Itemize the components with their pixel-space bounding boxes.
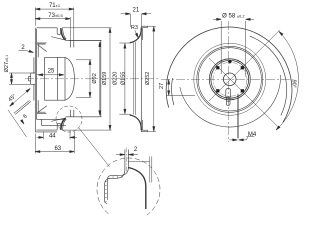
detail curl inner xyxy=(107,176,111,200)
stator circle a xyxy=(197,46,263,112)
svg-text:90°: 90° xyxy=(291,80,297,88)
svg-text:2: 2 xyxy=(134,147,138,153)
detail circle A xyxy=(56,106,82,132)
front horizontal centerline xyxy=(161,78,294,80)
detail housing verticals xyxy=(150,157,152,183)
motor dome xyxy=(65,57,74,100)
detail bend outer xyxy=(111,170,125,179)
bracket foot ledge xyxy=(37,119,66,125)
front diagonal up-right xyxy=(209,30,280,101)
dim 6 line xyxy=(8,110,27,137)
svg-text:73±0,5: 73±0,5 xyxy=(48,13,63,19)
top slot xyxy=(57,28,60,35)
svg-text:27: 27 xyxy=(159,83,165,89)
bracket foot bottom xyxy=(35,131,57,133)
inlet bellmouth bottom xyxy=(130,115,142,130)
bracket bar 45° xyxy=(14,100,31,114)
mounting squares xyxy=(216,60,244,93)
front vertical centerline xyxy=(228,21,230,142)
dim Ø220 xyxy=(62,28,112,130)
shaft boss xyxy=(31,73,36,84)
dim 25 xyxy=(37,74,64,76)
detail backplate heavy xyxy=(128,168,145,210)
shroud top line xyxy=(66,39,101,41)
terminal stud upper xyxy=(226,88,231,97)
detail dim 2 xyxy=(116,154,138,156)
dim 63 xyxy=(35,132,74,154)
terminal stud lower xyxy=(226,101,230,105)
svg-text:45°: 45° xyxy=(7,93,17,103)
impeller front rim vertical xyxy=(100,40,102,116)
detail sheet centerline xyxy=(126,148,128,173)
dim 21 xyxy=(121,14,152,27)
shroud cone diagonal bottom xyxy=(51,118,66,122)
dim Ø252 xyxy=(148,26,156,131)
dim 71±1 xyxy=(35,7,74,40)
svg-text:2: 2 xyxy=(21,45,25,51)
svg-text:Ø159: Ø159 xyxy=(102,72,108,85)
terminal stud mid xyxy=(226,97,231,101)
detail curl dots xyxy=(105,176,122,201)
dim 45° line xyxy=(10,89,31,107)
backplate vertical b xyxy=(73,40,75,116)
svg-text:25: 25 xyxy=(48,69,55,75)
shaft end xyxy=(29,76,31,81)
dim Ø92 xyxy=(76,60,92,98)
svg-text:63: 63 xyxy=(54,146,61,152)
center hole xyxy=(223,73,236,86)
svg-text:44: 44 xyxy=(49,134,56,140)
backplate arc xyxy=(180,75,281,127)
dim Ø58 xyxy=(213,19,254,76)
housing bottom edge xyxy=(37,129,58,131)
stator circle b xyxy=(198,48,261,111)
centerline axis xyxy=(25,78,158,80)
svg-text:Ø92: Ø92 xyxy=(92,73,98,83)
housing inner arc right xyxy=(250,36,287,115)
inlet mouth bottom tick xyxy=(119,113,130,115)
inlet ring cylinder silhouette xyxy=(134,42,136,115)
hub cap circle a xyxy=(209,59,250,100)
inlet bellmouth top xyxy=(130,28,142,43)
hub cap circle b xyxy=(211,60,249,98)
dim 44 xyxy=(37,131,78,140)
inlet ring outer silhouette xyxy=(141,26,142,132)
bottom slot xyxy=(57,123,60,130)
top diamond xyxy=(228,60,232,64)
svg-text:Ø252: Ø252 xyxy=(145,72,151,85)
svg-text:R3: R3 xyxy=(131,25,138,31)
R3 leader xyxy=(135,30,138,36)
detail curl outer xyxy=(105,178,111,203)
svg-text:6: 6 xyxy=(22,113,28,120)
detail circle B xyxy=(97,158,160,221)
housing top edge xyxy=(37,27,58,29)
dim 2 leader xyxy=(19,50,31,52)
dim 73±0.5 xyxy=(35,17,70,40)
dim 90° arc xyxy=(276,32,298,131)
dim Ø27 xyxy=(9,73,31,84)
detail sheet verticals xyxy=(125,150,128,170)
dim 27 xyxy=(167,79,195,95)
dim Ø159 xyxy=(69,40,102,116)
bottom step curve heavy xyxy=(61,118,66,130)
rotor circle xyxy=(194,43,266,115)
detail leader xyxy=(79,128,110,167)
svg-text:Ø155: Ø155 xyxy=(120,72,126,85)
top step curve heavy xyxy=(61,28,66,40)
svg-text:Ø27±0,1: Ø27±0,1 xyxy=(4,55,10,73)
inlet ring flange bottom xyxy=(141,130,147,132)
svg-text:Ø220: Ø220 xyxy=(113,72,119,85)
flange inner vertical xyxy=(36,29,38,120)
svg-text:71±1: 71±1 xyxy=(49,3,61,9)
cone top lines xyxy=(37,43,47,58)
inlet ring flange top xyxy=(141,26,147,27)
svg-text:M4: M4 xyxy=(248,132,257,138)
cone bottom lines xyxy=(37,100,47,113)
backplate vertical a xyxy=(69,40,71,116)
motor body xyxy=(45,57,65,100)
detail top tick xyxy=(128,161,149,163)
housing inner arc left xyxy=(172,78,174,105)
motor seam xyxy=(56,57,58,100)
dim M4 xyxy=(230,137,255,140)
detail bend inner xyxy=(111,168,128,176)
bolt circle xyxy=(213,62,247,96)
flange front face xyxy=(33,58,35,101)
shroud bottom line xyxy=(66,116,101,118)
svg-text:Ø 58 ±0,2: Ø 58 ±0,2 xyxy=(222,13,245,19)
housing outer arc xyxy=(166,27,292,122)
M4 stud lines xyxy=(237,95,238,139)
top step curve inner xyxy=(63,28,67,39)
svg-text:21: 21 xyxy=(133,7,140,13)
bottom step curve inner xyxy=(63,119,67,129)
inlet mouth top tick xyxy=(119,42,130,44)
front diagonal down-right xyxy=(209,58,279,128)
dim Ø155 xyxy=(124,43,126,114)
shroud cone diagonal top xyxy=(51,37,66,41)
flange outer vertical xyxy=(34,28,36,132)
